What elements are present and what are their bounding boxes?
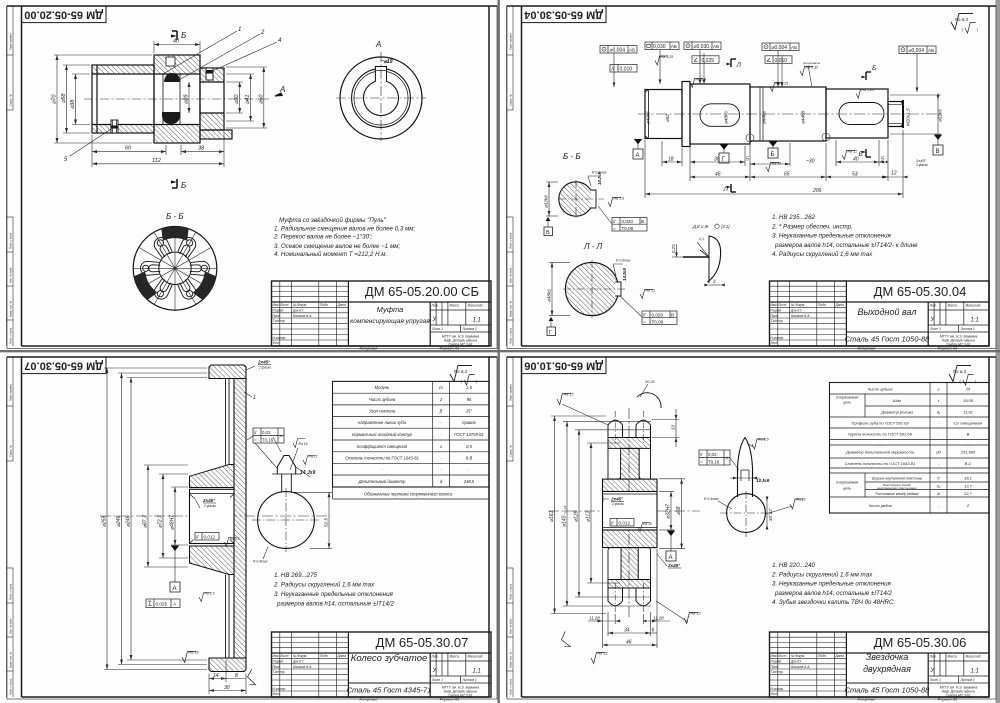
- svg-text:35°42': 35°42': [768, 508, 773, 521]
- gear bore detail circle: [252, 443, 332, 564]
- sheet4 title block: [770, 632, 990, 697]
- svg-text:1: 1: [253, 395, 256, 401]
- svg-text:⌀140₋₀,₄₃: ⌀140₋₀,₄₃: [562, 506, 568, 527]
- svg-text:ГОСТ 13755-81: ГОСТ 13755-81: [454, 432, 484, 437]
- svg-text:ДМ 65-05.30.06: ДМ 65-05.30.06: [874, 635, 967, 650]
- diameter labels rotated: [646, 108, 943, 126]
- svg-text:Ra 1,6: Ra 1,6: [614, 197, 625, 201]
- svg-text:полировать: полировать: [803, 61, 821, 65]
- tolerance frame F3: [645, 42, 679, 50]
- datum Г: [719, 153, 729, 163]
- sheet4 frame: [507, 357, 996, 697]
- svg-text:⌀248: ⌀248: [116, 515, 122, 527]
- tolerance frame F6: [762, 43, 799, 51]
- svg-text:1. Радиальное смещение валов: 1. Радиальное смещение валов не более 0,…: [274, 226, 416, 233]
- svg-text:Расстояние между рядами: Расстояние между рядами: [875, 492, 918, 496]
- svg-text:2 фаски: 2 фаски: [915, 163, 928, 167]
- svg-text:m: m: [439, 385, 443, 390]
- svg-text:Ra 1,6: Ra 1,6: [758, 438, 769, 442]
- shaft thread end M20x1.5: [888, 102, 903, 127]
- svg-text:А: А: [936, 491, 940, 496]
- dim ⌀48H7: [171, 487, 188, 545]
- sprocket upper disc band: [608, 438, 651, 449]
- svg-text:В: В: [967, 432, 970, 437]
- svg-text:b₃: b₃: [937, 484, 941, 489]
- svg-text:=: =: [700, 460, 703, 465]
- svg-text:38: 38: [198, 146, 205, 152]
- svg-text:~30: ~30: [806, 159, 815, 165]
- svg-text:ДМ 65-05.30.04: ДМ 65-05.30.04: [523, 9, 603, 21]
- dim 10 tooth width: [652, 409, 679, 447]
- svg-text:Муфта: Муфта: [377, 305, 404, 314]
- leader 2: [179, 34, 260, 80]
- shaft section ⌀40h8 with keyway: [826, 89, 888, 138]
- svg-text:Число зубьев: Число зубьев: [369, 397, 396, 402]
- svg-text:2. * Размер обеспеч. инстр.: 2. * Размер обеспеч. инстр.: [771, 223, 853, 230]
- svg-text:0,012: 0,012: [204, 535, 216, 540]
- svg-text:Модуль: Модуль: [375, 385, 390, 390]
- svg-text:2 фаски: 2 фаски: [258, 366, 271, 370]
- svg-text:В: В: [671, 313, 674, 318]
- sheet3 corner roughness: [450, 366, 475, 386]
- svg-text:В: В: [546, 230, 550, 236]
- svg-text:цепь: цепь: [843, 487, 851, 491]
- sheet4 drawing content: [548, 366, 989, 664]
- svg-text:34: 34: [624, 628, 630, 634]
- svg-text:⌀48k6: ⌀48k6: [547, 289, 552, 302]
- svg-text:А: А: [375, 40, 381, 49]
- svg-text:Диаметр делительной окружности: Диаметр делительной окружности: [845, 450, 915, 455]
- svg-text:⌀32H7: ⌀32H7: [666, 504, 672, 519]
- svg-text:0,025: 0,025: [702, 58, 715, 64]
- svg-text:8: 8: [235, 673, 238, 679]
- view A keyway: [375, 67, 386, 82]
- gear rim top band: [209, 365, 246, 379]
- svg-text:В: В: [936, 149, 940, 155]
- sprocket teeth top: [608, 420, 651, 437]
- sheet1 frame: [7, 6, 497, 346]
- view A circles: [340, 57, 422, 139]
- svg-text:Выходной вал: Выходной вал: [858, 307, 917, 317]
- dim 38 bottom: [181, 132, 224, 155]
- svg-text:правое: правое: [462, 420, 476, 425]
- gear rim bottom band: [209, 658, 246, 672]
- svg-text:А: А: [173, 586, 177, 592]
- tol box parallel 0.012: [195, 533, 219, 541]
- sheet3 frame: [7, 357, 497, 697]
- sheet1 title block: [272, 281, 492, 346]
- sprocket bore: [603, 492, 658, 531]
- svg-text:18,1: 18,1: [964, 476, 972, 481]
- sheet2 notes: [771, 214, 918, 258]
- roughness: [752, 439, 766, 449]
- svg-text:нормальный исходный контур: нормальный исходный контур: [352, 432, 413, 437]
- sheet2 title block: [770, 281, 990, 346]
- svg-text:Ra 16: Ra 16: [189, 651, 200, 655]
- gear centerline: [100, 515, 330, 517]
- svg-text:размеров валов h14, остальны: размеров валов h14, остальные ±IT14/2: [276, 601, 395, 608]
- svg-text:Ra 6,3: Ra 6,3: [454, 369, 467, 374]
- svg-text:Б: Б: [872, 65, 876, 72]
- svg-text:2: 2: [260, 30, 265, 36]
- sprocket hub upper band: [603, 479, 658, 491]
- svg-text:0,030: 0,030: [653, 44, 666, 50]
- svg-text:Делительный диаметр: Делительный диаметр: [358, 479, 407, 484]
- dim ⌀112: [587, 443, 620, 583]
- tooth tol box right: [253, 428, 284, 443]
- bottom dims 14 8 30: [209, 660, 246, 694]
- left hub hatch: [92, 65, 154, 74]
- datum A: [670, 536, 672, 552]
- svg-text:А: А: [279, 85, 285, 94]
- tolerance frame F7: [765, 56, 792, 64]
- svg-text:14: 14: [213, 673, 219, 679]
- svg-text:В: В: [641, 219, 644, 224]
- svg-text:151,995: 151,995: [961, 450, 976, 455]
- dim ⌀128: [575, 430, 651, 597]
- flange top notch pin: [166, 57, 175, 66]
- svg-text:96: 96: [467, 397, 472, 402]
- sprocket hub lower band: [603, 530, 658, 548]
- svg-text:Ra 16: Ra 16: [643, 522, 652, 526]
- dim row 1: [645, 130, 907, 198]
- tol box 0.012 in bore: [610, 519, 634, 527]
- svg-text:Ra 6,3: Ra 6,3: [955, 17, 968, 22]
- datum A triangle on hub: [174, 550, 176, 582]
- svg-text:3. Неуказанные предельные отк: 3. Неуказанные предельные отклонения: [772, 581, 892, 588]
- svg-text:β: β: [439, 409, 443, 414]
- svg-text:⌀128: ⌀128: [574, 510, 580, 522]
- svg-text:ДМ 65-05.30.07: ДМ 65-05.30.07: [376, 635, 469, 650]
- svg-text:АБ: АБ: [629, 48, 635, 53]
- svg-text:Сталь 45 Гост 1050-88: Сталь 45 Гост 1050-88: [845, 335, 931, 344]
- svg-text:2х45°: 2х45°: [202, 498, 215, 503]
- sheet1 drawing content: [52, 27, 427, 310]
- dark wedges: [132, 227, 218, 301]
- svg-text:⌀58: ⌀58: [61, 93, 67, 103]
- svg-text:11,28: 11,28: [653, 616, 664, 621]
- svg-text:15°: 15°: [466, 409, 473, 414]
- svg-text:⌀30: ⌀30: [234, 94, 240, 104]
- svg-text:Число зубьев: Число зубьев: [868, 386, 893, 391]
- svg-text:0,020: 0,020: [652, 313, 664, 318]
- svg-text:3. Неуказанные предельные отк: 3. Неуказанные предельные отклонения: [274, 591, 394, 598]
- svg-text:⌀72,7: ⌀72,7: [158, 515, 164, 528]
- bottom dims: [588, 549, 670, 648]
- set screw right hub top: [206, 68, 213, 80]
- gear hub lower hatch: [190, 546, 235, 575]
- sheet2 stamp box: [522, 6, 607, 23]
- svg-text:1. НВ 235...262: 1. НВ 235...262: [772, 214, 816, 221]
- sheet4 stamp box: [522, 357, 607, 374]
- sheet4 corner roughness: [949, 366, 974, 386]
- svg-text:4. Номинальный момент Т =212,: 4. Номинальный момент Т =212,2 Н.м.: [274, 251, 387, 258]
- dim 60 bottom: [92, 135, 166, 155]
- svg-text:Ra 1,25: Ra 1,25: [776, 82, 789, 86]
- svg-text:⌀41: ⌀41: [245, 95, 251, 104]
- shaft section ⌀48k6 with keyway: [690, 84, 750, 144]
- svg-text:⌀44k6: ⌀44k6: [762, 111, 767, 124]
- svg-text:ДМ 65-05.10.06: ДМ 65-05.10.06: [524, 360, 603, 372]
- lower middle web column: [621, 548, 638, 580]
- svg-text:⌀32k6: ⌀32k6: [544, 195, 549, 208]
- svg-text:Ra 1,25: Ra 1,25: [661, 55, 674, 59]
- dim ⌀32H7: [659, 492, 674, 531]
- svg-text:R 0,6max: R 0,6max: [592, 171, 607, 175]
- section mark Б bottom right: [866, 149, 871, 157]
- svg-text:Со смещением: Со смещением: [954, 421, 982, 426]
- right hub hatch: [200, 68, 224, 82]
- sprocket teeth bottom: [608, 588, 651, 606]
- svg-text:⌀112: ⌀112: [586, 511, 592, 522]
- upper side recesses: [608, 448, 621, 479]
- svg-text:2 фаски: 2 фаски: [611, 502, 624, 506]
- gear hub upper hatch: [190, 465, 235, 488]
- roughness marks gear: [199, 593, 212, 602]
- sheet4 outer border: [507, 357, 996, 699]
- svg-text:2 фаски: 2 фаски: [203, 504, 216, 508]
- svg-text:Ra 12: Ra 12: [796, 498, 806, 502]
- datum А: [633, 149, 643, 159]
- svg-text:⌀58: ⌀58: [676, 506, 682, 515]
- svg-text:⌀38: ⌀38: [70, 99, 76, 109]
- svg-text:Ra 6,3: Ra 6,3: [953, 369, 966, 374]
- star element black blobs: [164, 73, 180, 82]
- svg-text:Звездочка: Звездочка: [866, 652, 909, 662]
- svg-text:⌀48H7: ⌀48H7: [170, 515, 176, 530]
- svg-text:0,025: 0,025: [156, 602, 168, 607]
- sheet2 corner roughness: [951, 14, 976, 34]
- svg-text:0,020: 0,020: [622, 219, 634, 224]
- tol box under Б-Б: [612, 218, 647, 232]
- svg-text:Б - Б: Б - Б: [166, 212, 184, 221]
- profile: [738, 438, 753, 498]
- svg-text:АВ: АВ: [928, 48, 934, 53]
- section mark Л top: [731, 59, 736, 67]
- svg-text:0,02: 0,02: [262, 430, 271, 435]
- svg-text:2,1: 2,1: [698, 237, 704, 241]
- right hub outline: [200, 68, 232, 139]
- dim 112 bottom: [92, 155, 224, 167]
- sheet4 margin boxes: [507, 357, 514, 697]
- svg-text:⌀0,004: ⌀0,004: [909, 48, 925, 54]
- dim ⌀50: [226, 67, 267, 128]
- svg-text:Ширина внутренней пластины: Ширина внутренней пластины: [872, 477, 923, 481]
- svg-text:Ra 12: Ra 12: [691, 612, 702, 616]
- left hub outline: [92, 65, 154, 133]
- svg-text:40: 40: [853, 157, 859, 163]
- circle: [727, 494, 766, 533]
- svg-text:Т0,08: Т0,08: [652, 319, 664, 324]
- svg-text:Ra 0,8: Ra 0,8: [696, 78, 707, 82]
- svg-text:Л: Л: [736, 62, 742, 69]
- gear rim right strip: [234, 379, 246, 659]
- svg-text:2. Радиусы скруглений 1,6 мм: 2. Радиусы скруглений 1,6 мм max: [273, 582, 375, 589]
- svg-text:Ra 12: Ra 12: [309, 455, 318, 459]
- svg-text:6: 6: [652, 628, 655, 634]
- dim ⌀248: [118, 373, 207, 665]
- dim ⌀58: [63, 65, 90, 133]
- svg-text:2х45°: 2х45°: [610, 497, 623, 502]
- svg-text:⌀48k6: ⌀48k6: [724, 111, 729, 124]
- svg-text:0,010: 0,010: [775, 58, 788, 64]
- svg-text:4. Зубья звездочки калить ТВЧ: 4. Зубья звездочки калить ТВЧ до 48HRC: [772, 599, 894, 606]
- svg-text:⌀87,7: ⌀87,7: [143, 515, 149, 528]
- sheet1 stamp box: [22, 6, 107, 23]
- fillet callout circles: [746, 134, 754, 142]
- pos leader 1: [244, 392, 252, 397]
- svg-text:Ra 1,25: Ra 1,25: [862, 88, 875, 92]
- svg-text:=: =: [254, 438, 257, 443]
- svg-text:ДМ 65-05.30.07: ДМ 65-05.30.07: [24, 360, 103, 372]
- svg-text:30: 30: [224, 685, 230, 691]
- roughness Ra12 top left: [557, 394, 571, 405]
- section Б-Б star coupling: [132, 212, 218, 310]
- svg-text:46: 46: [715, 172, 721, 178]
- svg-text:Ra 16: Ra 16: [299, 442, 308, 446]
- tolerance frame F2: [610, 65, 637, 73]
- svg-text:⌀44h8: ⌀44h8: [801, 111, 806, 124]
- svg-text:36: 36: [714, 157, 720, 163]
- svg-text:двухрядная: двухрядная: [863, 664, 911, 674]
- svg-text:46: 46: [626, 640, 632, 646]
- svg-text:3. Неуказанные предельные отк: 3. Неуказанные предельные отклонения: [772, 233, 892, 240]
- sprocket lower disc band: [608, 580, 651, 589]
- svg-text:Шаг: Шаг: [893, 398, 901, 403]
- svg-text:Г: Г: [549, 330, 552, 336]
- svg-text:248,5: 248,5: [463, 479, 475, 484]
- svg-text:Т0,08: Т0,08: [622, 226, 634, 231]
- svg-text:5: 5: [746, 157, 749, 163]
- sheet3 gear table: [333, 381, 490, 499]
- svg-text:(4:1): (4:1): [721, 224, 730, 229]
- svg-text:8-В: 8-В: [466, 455, 473, 460]
- dim ⌀161: [551, 416, 606, 614]
- svg-text:⌀258: ⌀258: [102, 515, 108, 527]
- section Б-Б circle: [544, 152, 648, 236]
- dim ⌀41: [226, 74, 254, 121]
- tolerance frame F8: [899, 46, 936, 54]
- shaft section 1 ⌀40k6: [645, 82, 903, 147]
- tooth profile detail: [699, 438, 806, 538]
- svg-text:В-С: В-С: [965, 461, 972, 466]
- dim ⌀28 inside: [188, 82, 190, 113]
- svg-text:0,010: 0,010: [620, 67, 633, 73]
- sheet2 outer border: [507, 6, 996, 349]
- gear bore: [190, 489, 235, 543]
- svg-text:20,25: 20,25: [644, 380, 655, 384]
- section Л-Л circle: [547, 242, 678, 336]
- sheet2 drawing content: [544, 14, 980, 337]
- svg-text:10: 10: [671, 424, 676, 430]
- svg-text:Обозначение чертежа сопряженно: Обозначение чертежа сопряженного колеса: [364, 492, 453, 497]
- sheet1 notes: [273, 217, 416, 258]
- svg-text:3. Осевое смещение валов не б: 3. Осевое смещение валов не более ~1 мм;: [274, 243, 400, 250]
- upper middle web column: [621, 448, 640, 479]
- gear web lines: [226, 379, 230, 659]
- svg-text:z: z: [937, 386, 940, 391]
- svg-text:=: =: [643, 319, 646, 324]
- svg-text:0,02: 0,02: [708, 452, 717, 457]
- svg-text:АБ: АБ: [671, 44, 677, 49]
- tooth arc callout top: [637, 393, 661, 408]
- sheet1 margin boxes: [7, 6, 14, 346]
- leader 4: [208, 42, 277, 73]
- svg-text:Число рядов: Число рядов: [868, 503, 891, 508]
- svg-text:размеров валов h14, остальны: размеров валов h14, остальные ±IT14/2: [774, 590, 893, 597]
- svg-text:Т0,16: Т0,16: [708, 460, 720, 465]
- svg-text:206: 206: [812, 188, 822, 194]
- tolerance frame F1: [600, 46, 637, 54]
- svg-text:Б: Б: [771, 152, 775, 158]
- sheet3 margin boxes: [7, 357, 14, 697]
- svg-text:АВ: АВ: [713, 44, 719, 49]
- svg-text:2. Перекос валов не более ~1°: 2. Перекос валов не более ~1°30';: [273, 234, 372, 241]
- svg-text:⌀246: ⌀246: [126, 515, 132, 527]
- right gray scan strip: [996, 0, 1000, 703]
- divider vertical between sheets: [498, 0, 500, 703]
- view A centerlines: [336, 97, 426, 99]
- section mark Л bottom: [731, 184, 736, 192]
- svg-text:53: 53: [852, 172, 858, 178]
- svg-text:60: 60: [125, 146, 132, 152]
- svg-text:Колесо зубчатое: Колесо зубчатое: [351, 653, 428, 664]
- svg-text:12,7: 12,7: [964, 484, 973, 489]
- svg-text:Угол наклона: Угол наклона: [369, 409, 396, 414]
- set screw on left hub: [111, 120, 118, 133]
- sheet4 sprocket table: [830, 383, 990, 514]
- svg-text:размеров валов h14, остальны: размеров валов h14, остальные ±IT14/2- к…: [774, 242, 918, 249]
- tol box: [699, 450, 730, 465]
- dim ⌀246: [127, 378, 207, 661]
- svg-text:Ra 12: Ra 12: [564, 393, 575, 397]
- sheet3 stamp box: [22, 357, 107, 374]
- svg-text:2,5: 2,5: [465, 385, 472, 390]
- dim ⌀140: [563, 421, 651, 606]
- keyway profile detail: [272, 437, 318, 477]
- star lobes: 6 arms: [134, 231, 215, 305]
- sheet2 margin boxes: [507, 6, 514, 346]
- sheet3 drawing content: [100, 360, 489, 695]
- leader 1: [163, 31, 237, 74]
- svg-text:Ra 12: Ra 12: [848, 150, 858, 154]
- svg-text:⌀0,030: ⌀0,030: [694, 44, 710, 50]
- svg-text:Ra 12: Ra 12: [598, 652, 609, 656]
- svg-text:Сталь 45 Гост 1050-88: Сталь 45 Гост 1050-88: [845, 686, 931, 695]
- svg-text:⌀52: ⌀52: [665, 114, 670, 122]
- svg-text:Профиль зуба по ГОСТ 591-69: Профиль зуба по ГОСТ 591-69: [851, 421, 909, 426]
- 35 dim: [766, 497, 768, 527]
- svg-text:Т0,16: Т0,16: [262, 438, 274, 443]
- dim ⌀58: [659, 479, 685, 549]
- svg-text:Ra 12: Ra 12: [646, 289, 656, 293]
- svg-text:А: А: [636, 153, 640, 159]
- tolerance frame F5: [692, 56, 719, 64]
- svg-text:⌀0,004: ⌀0,004: [610, 48, 626, 54]
- svg-text:1: 1: [238, 27, 241, 33]
- flange hatch: [154, 55, 200, 74]
- roughness marks on shaft: [655, 56, 869, 172]
- svg-text:цепь: цепь: [843, 401, 851, 405]
- svg-text:направление линии зуба: направление линии зуба: [358, 420, 407, 425]
- svg-text:Б: Б: [859, 151, 863, 158]
- svg-text:Ra 0,32: Ra 0,32: [806, 66, 819, 70]
- svg-text:R 0,4max: R 0,4max: [253, 560, 268, 564]
- svg-text:М20х1,5: М20х1,5: [906, 108, 911, 126]
- dim ⌀72.7: [159, 474, 188, 558]
- svg-text:5: 5: [881, 157, 884, 163]
- svg-text:0,012: 0,012: [619, 521, 631, 526]
